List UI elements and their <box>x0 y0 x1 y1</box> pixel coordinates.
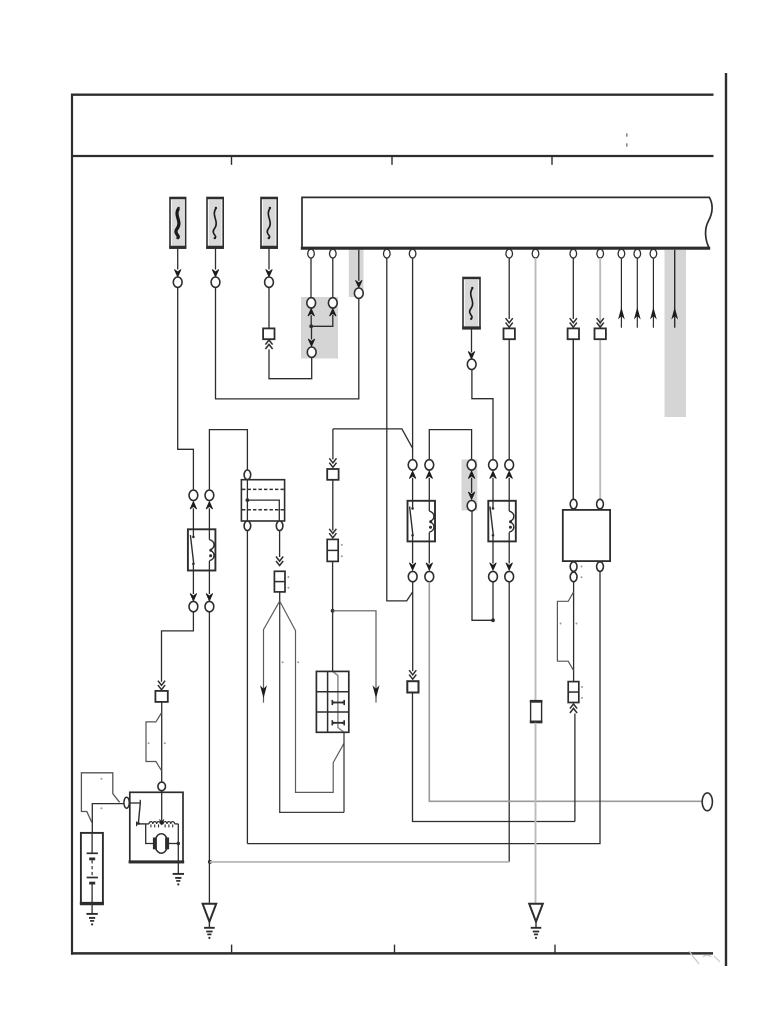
chevron into box C4 <box>329 463 336 468</box>
trident label dots <box>282 661 284 663</box>
wire D pair mid <box>471 478 473 493</box>
wire C5 to starter terminal <box>161 702 163 782</box>
connector A1 <box>173 277 182 287</box>
J/B internal branch <box>247 500 279 521</box>
wire R0-L out <box>192 571 194 595</box>
bottom tick 2 <box>394 945 396 954</box>
faint corner mark <box>689 951 720 964</box>
wire C7 down to NF junction <box>332 561 334 610</box>
ECU terminal 10 <box>634 249 641 258</box>
arrow into R2-L <box>490 471 497 478</box>
arrowhead up 1 <box>619 309 624 319</box>
wire J/B-L long down <box>246 531 248 844</box>
connector J/B bottom R <box>276 521 283 531</box>
chevron into box C7 <box>329 533 336 538</box>
wire ECU t1 down <box>310 258 312 298</box>
wire into R2 right pre <box>508 459 510 461</box>
wire F3 connector to box <box>268 287 270 328</box>
arrow into R2-R bottom <box>506 563 513 570</box>
noise filter internal wire <box>333 671 344 732</box>
connector box C5 <box>155 691 167 702</box>
wire F2 to connector <box>215 248 217 269</box>
shield bracket BAT <box>81 773 119 823</box>
wire C9 to bus 821 <box>574 714 576 822</box>
connector B1 <box>307 298 316 308</box>
connector R2-R top <box>505 460 514 470</box>
trident right arm <box>280 601 344 792</box>
J/B internal wire <box>246 480 248 521</box>
wire ECU t5 to chevron box <box>508 258 510 319</box>
connector R1-L bottom <box>408 571 417 581</box>
wire R1-L chain down <box>412 582 414 671</box>
trident left arrowhead <box>261 687 266 697</box>
header tick 2 <box>391 156 393 165</box>
wire ECU t2 down <box>332 258 334 298</box>
wire into R1 left <box>412 478 414 501</box>
connector ring right <box>702 793 712 811</box>
connector BB bot R <box>597 562 604 572</box>
highlight band node C <box>665 250 687 417</box>
arrow into B3 <box>311 326 313 339</box>
connector box C3 <box>263 328 274 339</box>
connector box C8 <box>407 681 418 692</box>
wire into R2 left <box>492 478 494 501</box>
wire ECU t4 down to R1 <box>412 258 414 460</box>
fuse F3 <box>261 198 277 249</box>
branch arrowhead down <box>373 687 378 697</box>
chevron into box C6 <box>276 561 283 566</box>
wire R2-R to ground bus <box>508 582 510 862</box>
highlight band node D <box>462 460 478 511</box>
highlight band node A <box>349 249 364 297</box>
arrow into R0-L <box>190 502 197 509</box>
shield bracket BB <box>557 592 573 671</box>
connector BB top L <box>570 499 577 509</box>
ECU terminal 7 <box>570 249 577 258</box>
connector R2-L top <box>489 460 498 470</box>
wire output arrow 4 <box>674 250 676 328</box>
wire ECU t3 down <box>387 258 413 601</box>
arrow into R1-L <box>409 471 416 478</box>
connector ST top <box>158 782 166 791</box>
wire junction to B2 branch <box>311 315 333 326</box>
ECU terminal 4 <box>409 249 416 258</box>
wire B5 to R2 <box>472 370 493 460</box>
J/B dashed row 1 <box>242 488 284 490</box>
wire B3 to F3 link <box>269 349 312 378</box>
connector BB bot L1 <box>570 562 577 572</box>
wire F1 to relay R0 <box>178 287 194 489</box>
NF divider h2 <box>316 711 348 713</box>
wire R2-L out <box>492 541 494 563</box>
connector box D7 <box>568 328 579 339</box>
wire output arrow 1 <box>620 258 622 328</box>
chevron into box C5 <box>158 685 165 690</box>
wire to ground triangle G2 <box>535 723 537 904</box>
ECU terminal 6 <box>532 249 539 258</box>
ground triangle G1 <box>203 904 217 922</box>
relay R0 (starter relay) <box>188 529 216 570</box>
junction dot B <box>309 324 313 328</box>
starter junction dot <box>177 842 180 845</box>
connector R1-R top <box>425 460 434 470</box>
NF divider h1 <box>316 691 348 693</box>
connector BB top R <box>597 499 604 509</box>
highlight band node B <box>301 297 338 359</box>
wire B4 to F2 <box>216 287 359 399</box>
connector B4 <box>354 288 363 298</box>
wire C6 split stem <box>279 592 281 601</box>
BB label dots <box>581 566 583 568</box>
wire B1 to junction <box>310 315 312 326</box>
ECU terminal 2 <box>330 249 337 258</box>
chevron into box C8 <box>409 675 416 680</box>
wire box D5 down to relay R2 <box>508 339 510 459</box>
battery ground <box>91 903 93 913</box>
wire R0-R long down <box>208 612 210 862</box>
connector D pair bottom <box>467 501 476 511</box>
connector box C9 <box>568 682 579 703</box>
connector ST ellipse <box>124 797 129 808</box>
shield bracket ST <box>146 713 162 771</box>
wire D pair down <box>472 511 493 620</box>
ground triangle G2 <box>529 904 543 922</box>
arrow into R1-R bottom <box>426 563 433 570</box>
wire R2-R out <box>508 541 510 563</box>
arrow into B4 <box>356 280 363 287</box>
starter motor M <box>155 834 168 853</box>
starter motor right link <box>168 843 178 845</box>
fuse F4 <box>463 278 480 329</box>
chevron into box D8 <box>597 323 604 328</box>
wire ECU t-EFI down <box>358 250 360 281</box>
arrowhead up 3 <box>651 309 656 319</box>
ECU terminal 1 <box>308 249 315 258</box>
arrow into connector A2 <box>212 269 219 276</box>
arrow into B2 <box>330 309 337 316</box>
starter ground <box>177 862 179 873</box>
NF coil bar 1 <box>332 702 344 704</box>
wire feeder horiz <box>333 429 413 449</box>
arrow into connector A3 <box>266 269 273 276</box>
ground bus wire gray <box>210 861 509 863</box>
wire into noise filter <box>332 611 334 672</box>
header tick 1 <box>231 156 233 165</box>
connector R1-R bottom <box>425 571 434 581</box>
arrow into R2-L bottom <box>490 563 497 570</box>
relay R1 <box>408 501 436 542</box>
big connector box <box>563 510 610 561</box>
fuse F2 <box>207 198 223 249</box>
connector box C4 <box>327 469 338 480</box>
inline fuse box F5 <box>531 701 542 723</box>
wire box D7 down to J-box <box>572 339 574 499</box>
wire F3 to connector <box>268 248 270 269</box>
connector box D8 <box>595 328 606 339</box>
ECU terminal 5 <box>506 249 513 258</box>
connector BB bot L2 <box>570 572 577 582</box>
wire ECU t8 gray <box>599 258 601 499</box>
trident center arm <box>280 601 344 812</box>
ECU main block <box>302 197 712 248</box>
connector D pair top <box>467 460 476 470</box>
relay R2 <box>488 501 516 542</box>
connector R2-R bottom <box>505 571 514 581</box>
arrowhead up 4 <box>672 309 677 319</box>
wire J/B-R to conn box <box>279 531 281 557</box>
wire C8 to bus 821 <box>413 693 575 822</box>
wire F1 to connector <box>177 248 179 269</box>
connector box C7 <box>327 539 338 561</box>
header tick 3 <box>551 156 553 165</box>
page border left <box>71 94 73 955</box>
connector R0-R bottom <box>205 601 214 611</box>
chevron into box D5 <box>506 323 513 328</box>
connector B5 <box>467 359 476 369</box>
bracket BAT label dots <box>100 778 102 780</box>
arrow into R0-R <box>206 502 213 509</box>
wire into R1 right <box>428 478 430 501</box>
wire NF out <box>343 732 345 812</box>
wire J-box bridge <box>209 430 247 490</box>
noise filter block <box>316 671 348 732</box>
header top rule <box>71 94 714 96</box>
connector box D5 <box>504 328 515 339</box>
connector box C6 <box>274 571 285 592</box>
arrow into R1-R <box>426 471 433 478</box>
connector A3 <box>265 277 274 287</box>
arrow into D pair <box>468 471 475 478</box>
wire big box top L <box>572 339 574 499</box>
wire corner to chevron C4 <box>332 429 334 460</box>
J/B dashed row 2 <box>242 509 284 511</box>
NF divider v <box>327 671 329 732</box>
wire R0-L to C-box <box>162 612 194 682</box>
NF coil bar 2 <box>332 722 344 724</box>
header bottom rule <box>71 155 714 157</box>
trident left arm <box>264 601 280 703</box>
battery cells <box>91 833 93 853</box>
starter switch <box>129 802 140 804</box>
arrow into connector A1 <box>174 269 181 276</box>
wire to ground triangle G1 <box>208 862 210 904</box>
wire R2-L to junction <box>492 582 494 621</box>
box C7 label dots <box>341 544 343 546</box>
J/B internal dot <box>246 498 250 502</box>
wire F4 to connector <box>471 329 473 353</box>
arrow into R2-R <box>506 471 513 478</box>
arrow into R1-L bottom <box>409 563 416 570</box>
starter box <box>130 792 183 862</box>
connector R1-L top <box>408 460 417 470</box>
arrow into B1 <box>308 309 315 316</box>
connector B3 <box>307 347 316 357</box>
arrow into B5 <box>468 352 475 359</box>
connector R0-L top <box>189 490 198 500</box>
bottom tick 3 <box>554 945 556 954</box>
chevron under C9 <box>570 704 577 709</box>
connector R2-L bottom <box>489 571 498 581</box>
arrow into R0-R out connector <box>206 594 213 601</box>
wire into R0 right <box>208 508 210 529</box>
starter right vert <box>177 824 179 862</box>
connector A2 <box>211 277 220 287</box>
arrow into D pair lower <box>468 492 475 499</box>
wire ECU t6 gray <box>535 258 537 701</box>
wire R0-R out <box>208 571 210 595</box>
ECU terminal 9 <box>618 249 625 258</box>
chevron into C3 box <box>265 340 272 345</box>
connector J/B top <box>244 470 251 480</box>
box C6 label dots <box>287 576 289 578</box>
wire into R0 left <box>192 508 194 529</box>
ECU terminal 8 <box>597 249 604 258</box>
wire into R2 right <box>508 478 510 501</box>
branch to arrow out <box>333 611 376 703</box>
junction dot ground bus <box>208 860 212 864</box>
page bottom rule <box>71 952 713 955</box>
header colon mark <box>626 133 628 136</box>
junction dot NF <box>331 609 335 613</box>
wire BB-R down to bus 843 <box>247 572 600 844</box>
wire ECU t7 to chevron box <box>572 258 574 319</box>
page border right <box>725 73 727 966</box>
connector R0-R top <box>205 490 214 500</box>
ECU terminal 11 <box>650 249 657 258</box>
wire battery to starter <box>92 804 124 833</box>
bridge R1R to D-pair <box>429 430 471 460</box>
arrow into R0-L out connector <box>190 594 197 601</box>
wire C4 to C7 <box>332 480 334 531</box>
junction dot R2-L <box>491 618 495 622</box>
connector J/B bottom L <box>244 521 251 531</box>
wire R1-R chain down <box>429 582 702 802</box>
wire starter terminal in <box>161 791 163 822</box>
chevron into box D7 <box>570 323 577 328</box>
connector B2 <box>328 298 337 308</box>
bottom tick 1 <box>231 945 233 954</box>
battery box <box>81 833 103 904</box>
bracket BB label dots <box>560 623 562 625</box>
wire output arrow 3 <box>652 258 654 328</box>
connector R0-L bottom <box>189 601 198 611</box>
fusible link F1 <box>170 198 186 249</box>
junction block J/B <box>241 480 284 521</box>
bracket ST label dots <box>148 742 150 744</box>
ECU terminal 3 <box>384 249 391 258</box>
starter motor left link <box>146 824 154 844</box>
box C9 label dots <box>581 686 583 688</box>
wire R1-L out <box>412 541 414 563</box>
arrowhead up 2 <box>635 309 640 319</box>
wire R1-R out <box>428 541 430 563</box>
starter solenoid coils <box>149 822 153 824</box>
wire output arrow 2 <box>636 258 638 328</box>
wire BB-L down <box>573 582 575 682</box>
